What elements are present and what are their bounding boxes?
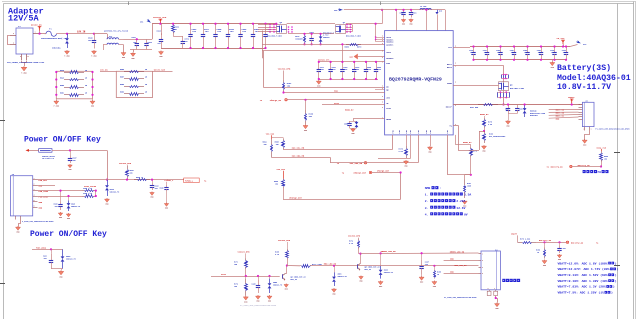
wire C640 to choke FL1 xyxy=(94,34,108,39)
junction ZD49 tap xyxy=(380,252,382,254)
junction C650 bottom xyxy=(252,47,254,49)
junction C416 top mid row xyxy=(341,61,343,63)
svg-text:12.6V: 12.6V xyxy=(456,207,465,210)
frame tick right y=265 xyxy=(614,265,620,267)
net label GND row lower xyxy=(450,271,454,274)
svg-text:R649: R649 xyxy=(60,76,64,79)
net label Battery_AD mid xyxy=(539,239,552,242)
net label VCC3V3_EFB stat pullup xyxy=(238,250,251,253)
resistor R176 9.09 xyxy=(399,146,408,158)
resistor R649 xyxy=(60,76,88,80)
junction C638 top xyxy=(264,23,266,25)
capacitor C353 xyxy=(537,47,544,60)
svg-text:2.: 2. xyxy=(425,200,429,203)
svg-text:9: 9 xyxy=(382,36,383,38)
wire Q6 collector xyxy=(286,266,287,274)
ground below R180 xyxy=(542,260,547,268)
ground below C661 xyxy=(409,19,414,26)
junction C347 top VA_SYS xyxy=(486,45,488,47)
svg-text:~70: ~70 xyxy=(595,170,601,174)
ground below J2 xyxy=(582,139,587,147)
svg-text:10.8V-11.7V: 10.8V-11.7V xyxy=(557,83,611,92)
junction elbow top xyxy=(375,23,377,25)
svg-text:STAT: STAT xyxy=(386,107,392,110)
text SMB line 2 xyxy=(425,199,466,203)
svg-text:1uF: 1uF xyxy=(185,41,188,43)
ground ladder1 left P_GND xyxy=(54,100,60,108)
svg-text::: : xyxy=(439,186,441,190)
capacitor C647 xyxy=(309,31,313,44)
wire REGN_5V feed from pin xyxy=(455,135,471,145)
capacitor C642 104 xyxy=(144,39,152,49)
wire R168 bottom to node xyxy=(287,260,289,266)
junction R648 left xyxy=(55,71,57,73)
junction dots bundle left of Q4 xyxy=(269,24,275,33)
ground below NTC xyxy=(482,145,487,153)
junction R167 top xyxy=(303,33,305,35)
svg-text:2: 2 xyxy=(455,82,456,84)
wire choke out to filter caps xyxy=(124,40,153,52)
wire VA_SYS stub to bus xyxy=(563,44,565,46)
junction R644 on PWR_KEY xyxy=(126,179,128,181)
svg-text:SOD323-76: SOD323-76 xyxy=(338,276,347,278)
junction Q4 source on bus xyxy=(275,23,277,25)
svg-text:104: 104 xyxy=(55,205,58,208)
wire C427 to gnd xyxy=(421,275,423,276)
wire Charge_INT upper xyxy=(372,172,401,174)
net label PWR_LED2 bottom xyxy=(36,246,47,249)
frame tick top x=380 xyxy=(380,2,382,6)
wire bottom pin R176 branch xyxy=(406,135,408,146)
svg-text:C641: C641 xyxy=(132,36,136,39)
junction riser on ACDRV1 xyxy=(341,43,343,45)
capacitor C448 104 xyxy=(252,280,261,293)
wire I2C_SDA_MB short xyxy=(271,157,330,163)
junction C648 top xyxy=(239,23,241,25)
capacitor C429 104 xyxy=(557,246,565,254)
svg-text:VCC3V3_EFB: VCC3V3_EFB xyxy=(238,250,251,253)
svg-text:Battery_AD: Battery_AD xyxy=(571,241,584,244)
svg-text:104: 104 xyxy=(356,68,359,71)
wire SGRN gate to Q8 xyxy=(453,85,498,87)
capacitor C429 stub xyxy=(559,242,561,245)
resistor R657 xyxy=(120,77,148,81)
capacitor C646 xyxy=(226,24,235,48)
zener ZD47 xyxy=(67,201,81,212)
svg-text:C660: C660 xyxy=(400,13,404,15)
wire Charge_INT lower xyxy=(283,199,401,201)
junction C406 bottom mid row xyxy=(365,78,367,80)
junction C346 bottom VA_SYS xyxy=(472,59,474,61)
svg-text:9V: 9V xyxy=(464,213,468,216)
wire VA_SYS gnd stub xyxy=(552,60,554,62)
resistor R163 10K xyxy=(283,80,293,93)
resistor R664 10K xyxy=(263,139,273,157)
port Battery_ID xyxy=(547,165,573,168)
resistor R169 NTC thermistor xyxy=(483,131,506,143)
text battery table line 1 xyxy=(558,261,617,265)
J3 pin stubs xyxy=(479,253,484,275)
svg-text:9: 9 xyxy=(382,85,383,87)
wire ladder2 output xyxy=(153,71,173,73)
zener ESD on REGN xyxy=(355,121,359,128)
junction J3 shield xyxy=(495,297,497,299)
wire R174 bottom xyxy=(359,249,361,254)
wire J3 shield to ground xyxy=(496,296,498,303)
sense jumper row below Q8 xyxy=(498,90,510,99)
bus VA_SYS bottom xyxy=(474,59,567,61)
transistor Q6 NPN xyxy=(283,273,306,281)
resistor R166 10K xyxy=(305,110,314,124)
svg-text:4.: 4. xyxy=(425,213,429,216)
svg-text:SOD923: SOD923 xyxy=(323,37,329,39)
label U1 part BQ20792RQMR-VQFN29 xyxy=(389,76,442,82)
wire WAC arrow to IC xyxy=(358,56,385,58)
junction C647 top xyxy=(311,33,313,35)
junction C352 bottom VA_SYS xyxy=(526,59,528,61)
junction C412 bottom mid row xyxy=(330,78,332,80)
wire Charge_INT riser join xyxy=(400,173,402,200)
svg-text:BQ20792RQMR-VQFN29: BQ20792RQMR-VQFN29 xyxy=(389,76,442,82)
connector J6 power key xyxy=(10,173,32,216)
junction R651 right xyxy=(91,94,93,96)
wire TVS to input cap xyxy=(76,33,94,35)
capacitor C661 xyxy=(409,10,417,18)
ferrite bead FB2 xyxy=(39,149,52,153)
svg-text:SOD323-76: SOD323-76 xyxy=(273,284,282,286)
U1 pin number marks left xyxy=(382,36,383,120)
svg-text:): ) xyxy=(617,267,619,271)
wire spare pin row xyxy=(378,135,411,159)
capacitor bank riser C643 xyxy=(161,24,163,35)
svg-text:Battery_ID: Battery_ID xyxy=(551,166,564,169)
net label VCC3V3_EFB pullup top xyxy=(278,68,291,71)
ground below ZD51 xyxy=(332,288,337,296)
resistor R651 xyxy=(60,93,88,97)
net label Charge_INT right of port xyxy=(377,170,390,173)
svg-text:1: 1 xyxy=(35,32,36,34)
fuse F1 xyxy=(46,28,56,37)
ground below R188 xyxy=(432,281,437,289)
svg-text:VCCA_1V8: VCCA_1V8 xyxy=(596,146,606,149)
junction aux rail riser xyxy=(395,9,397,11)
svg-text:R670: R670 xyxy=(357,47,361,49)
capacitor C643 xyxy=(157,30,164,49)
svg-text:BSN-HDN-T-GE3: BSN-HDN-T-GE3 xyxy=(510,88,524,90)
net label I2C_SCL_MB xyxy=(292,147,305,150)
resistor R162 4R xyxy=(172,24,179,34)
junction ZD51 tap xyxy=(333,265,335,267)
junction power stub on bus xyxy=(159,23,161,25)
transistor Q5 NPN xyxy=(358,263,380,271)
wire J1 shield to ground xyxy=(24,62,26,66)
capacitor C647 key filter xyxy=(70,150,72,155)
svg-text:12V/5A: 12V/5A xyxy=(8,13,40,23)
wire R178 to NTC xyxy=(484,128,486,131)
wire I2C_SCL_MB xyxy=(283,149,393,151)
frame tick right y=152 xyxy=(614,152,620,154)
net label SDA xyxy=(334,90,338,93)
capacitor C648 xyxy=(238,24,247,48)
capacitor C409 xyxy=(374,62,381,79)
title Adapter 12V/5A xyxy=(8,6,44,23)
svg-text:R658: R658 xyxy=(120,84,124,86)
wire R174 stub xyxy=(358,237,360,240)
wire green to C427 tap xyxy=(421,253,423,260)
ground mid cap row xyxy=(316,80,321,88)
J6 pin stubs xyxy=(33,178,38,208)
svg-text:104: 104 xyxy=(332,68,335,71)
svg-text:PIN: PIN xyxy=(406,130,408,133)
junction C419 top mid row xyxy=(353,61,355,63)
junction aux rail riser2 xyxy=(425,9,427,11)
wire J2 shield to ground xyxy=(585,131,590,140)
svg-text:): ) xyxy=(613,285,615,289)
wire bundle into FET cluster xyxy=(258,25,276,32)
wire stubs right of Q7 xyxy=(346,25,353,32)
resistor R658 xyxy=(120,84,148,87)
ground below C641 xyxy=(131,52,136,60)
capacitor C645 xyxy=(213,24,222,48)
svg-text:REGN_5V: REGN_5V xyxy=(345,109,354,112)
svg-text:GREEN_LED_EN: GREEN_LED_EN xyxy=(450,250,465,253)
junction ZD50 STAT xyxy=(268,275,270,277)
resistor R650 xyxy=(60,85,88,89)
J2 bottom pins xyxy=(584,127,592,131)
junction C645 bottom xyxy=(214,47,216,49)
junction dots right of Q7 xyxy=(346,24,351,33)
junction C350 bottom VA_SYS xyxy=(499,59,501,61)
ground below R161 xyxy=(462,200,467,208)
zener ZD48 xyxy=(61,249,76,268)
svg-text:SMBJ15A: SMBJ15A xyxy=(52,47,61,50)
pin 2 of J1 xyxy=(10,33,16,35)
wire R162 to C674 xyxy=(173,34,183,37)
text charge indicator (chinese) xyxy=(502,279,520,282)
wire STAT to IC xyxy=(322,104,385,106)
svg-text:2: 2 xyxy=(482,260,483,262)
power flag VCC19V_SCM xyxy=(153,16,167,23)
junction at TVS xyxy=(66,33,68,35)
resistor R178 2.2K xyxy=(483,118,494,128)
dummy-load resistor box 2 xyxy=(116,71,152,97)
U1 pin number marks right xyxy=(455,46,456,126)
diode D10 aux xyxy=(435,10,442,15)
junction C346 top VA_SYS xyxy=(472,45,474,47)
junction C646 bottom xyxy=(227,47,229,49)
risers from aux rail to IC top pins xyxy=(397,10,446,31)
J2 pin stubs xyxy=(579,105,583,120)
junction C348 bottom VA_SYS xyxy=(553,59,555,61)
text battery table line 2 xyxy=(558,267,619,271)
resistor R172 pulldown stub xyxy=(245,276,247,279)
junction C660 top xyxy=(402,9,404,11)
junction C649 tap xyxy=(59,190,61,192)
junction C416 bottom mid row xyxy=(341,78,343,80)
junction at DC19V_IN stub xyxy=(38,33,40,35)
junction R162 top xyxy=(172,23,174,25)
net label VCC3V3_EFB green pullup xyxy=(348,235,361,238)
net label RED_LED_EN left xyxy=(324,263,337,266)
net label PchON_L with port xyxy=(165,179,174,182)
svg-text:BOT_23: BOT_23 xyxy=(291,279,297,281)
capacitor C649 104 xyxy=(54,202,63,211)
capacitor C416 xyxy=(340,62,347,79)
op-amp U1 charger controller BQ20792RQMR-VQFN29 body xyxy=(385,31,454,135)
wire SDA to IC xyxy=(284,92,385,94)
junction C661 top xyxy=(410,9,412,11)
capacitor C640 xyxy=(88,34,96,49)
wire snubber bottoms xyxy=(51,269,63,271)
wire GREEN_LED_EN xyxy=(361,252,479,255)
junction C644 top xyxy=(189,23,191,25)
junction R649 left xyxy=(55,78,57,80)
stub VCC19V_SCM to bus xyxy=(160,22,162,25)
net labels battery sense xyxy=(556,109,565,121)
junction Q8 on battery rail xyxy=(502,103,504,105)
svg-text:R657: R657 xyxy=(120,77,124,79)
svg-text:9: 9 xyxy=(382,38,383,40)
net label Battery_ID right xyxy=(578,164,591,167)
svg-text:VACT: VACT xyxy=(386,51,392,54)
resistor R347 current sense xyxy=(470,104,498,110)
wire junction down to R161 xyxy=(465,175,471,180)
ground left of choke output xyxy=(121,52,126,60)
svg-text:RED_LED_EN: RED_LED_EN xyxy=(324,263,337,266)
wire PWR_KEY main xyxy=(38,179,184,181)
svg-text:104: 104 xyxy=(378,68,381,71)
riser joining bundle to ACDRV wires xyxy=(262,31,264,59)
junction C645 top xyxy=(214,23,216,25)
junction at C640 xyxy=(93,33,95,35)
text battery table line 3 xyxy=(558,273,617,277)
svg-text:Charge_INT: Charge_INT xyxy=(289,197,302,200)
wire VACT to IC xyxy=(262,50,385,52)
capacitor C421 104uF xyxy=(43,254,53,269)
U1 right pin names xyxy=(446,46,453,127)
label FL1 part xyxy=(104,30,129,33)
junction R648 right xyxy=(91,71,93,73)
svg-text:6: 6 xyxy=(34,205,35,207)
capacitor C643b on PWR_KEY xyxy=(152,180,154,183)
wire fuse to TVS node xyxy=(56,33,76,35)
U1 bottom pin names xyxy=(393,130,450,133)
wire C646 to gnd xyxy=(166,191,168,203)
capacitor C674 1uF xyxy=(181,36,190,48)
ground below R172 xyxy=(243,296,248,304)
resistor R168 4.7K xyxy=(275,249,289,260)
svg-text:VBATT=7.5V: ADC 1.25V (1%: VBATT=7.5V: ADC 1.25V (1% xyxy=(558,291,605,295)
capacitor C641 104 xyxy=(132,36,140,49)
junction VBATT stub xyxy=(571,103,573,105)
common mode choke FL1 bottom winding xyxy=(107,43,119,44)
zener ZD50 stub xyxy=(269,276,271,279)
svg-text:P1_Conn_ATM_C982151619-B0-6TDH: P1_Conn_ATM_C982151619-B0-6TDH xyxy=(444,296,476,299)
bus VCCSUS cap row top into PWB pin xyxy=(319,61,385,63)
wire Q4 drain to Q7 xyxy=(287,23,335,25)
net labels J6 pins xyxy=(39,179,49,209)
resistor R180 1K xyxy=(536,248,546,259)
svg-text:4: 4 xyxy=(482,272,483,275)
net label Charge_INT lower xyxy=(289,197,302,200)
junction C406 top mid row xyxy=(365,61,367,63)
svg-text:ACDRV2: ACDRV2 xyxy=(386,57,394,60)
junction choke-C641 xyxy=(136,38,138,40)
common mode choke FL1 top winding xyxy=(107,35,119,39)
ground below TVS xyxy=(64,50,70,58)
svg-text:ESD9464: ESD9464 xyxy=(530,114,538,117)
resistor R172 10K xyxy=(234,279,248,296)
svg-text:ACDRV1: ACDRV1 xyxy=(386,43,394,46)
junction Battery_ID xyxy=(600,165,602,167)
port I2C_SDA_MB xyxy=(337,162,367,165)
resistor R646 330R xyxy=(82,193,96,197)
zener ZD51 xyxy=(332,272,347,286)
TVS diode SMBJ15A xyxy=(52,34,69,50)
capacitor C411 xyxy=(317,62,324,79)
wire STAT bottom xyxy=(211,276,280,278)
wire REGN cap bottoms xyxy=(350,128,357,130)
svg-text:1: 1 xyxy=(591,129,592,131)
label FB2 part line1 xyxy=(42,155,55,158)
wire C641 C642 bottoms xyxy=(130,49,152,52)
svg-text:330R 1/16: 330R 1/16 xyxy=(83,193,92,195)
wire R166 stub xyxy=(305,100,307,110)
power flag DC19V_IN xyxy=(31,23,42,30)
junction C352 top VA_SYS xyxy=(526,45,528,47)
svg-text:104: 104 xyxy=(344,68,347,71)
svg-text:BSN-HDN-T-GE3: BSN-HDN-T-GE3 xyxy=(267,35,283,38)
text battery table line 4 xyxy=(558,279,617,283)
junction C347 bottom VA_SYS xyxy=(486,59,488,61)
battery positive rail xyxy=(453,104,580,106)
label J2 part number xyxy=(595,127,629,130)
wire GND row lower stub xyxy=(444,273,479,275)
junction C419 bottom mid row xyxy=(353,78,355,80)
connector J2 battery xyxy=(582,100,594,127)
svg-text:104: 104 xyxy=(551,51,554,54)
svg-text:I2C_SCL_MB: I2C_SCL_MB xyxy=(292,147,305,150)
capacitor C638 xyxy=(263,24,272,48)
ground below J6 xyxy=(16,226,21,234)
wire GND pin2 stub xyxy=(38,185,56,187)
J6 bottom pins xyxy=(16,216,21,220)
net label VCC3V3_EFB red pullup xyxy=(278,239,291,242)
capacitor C406 xyxy=(364,62,371,79)
resistor R179 4.02K xyxy=(518,237,537,243)
wire stat pullup stub xyxy=(245,253,247,258)
svg-text:2: 2 xyxy=(584,129,585,131)
ground below Q6 emitter xyxy=(284,284,289,291)
junction C409 bottom mid row xyxy=(375,78,377,80)
ground below Q5 emitter xyxy=(359,276,364,283)
svg-text:9: 9 xyxy=(382,96,383,98)
svg-text:SMB: SMB xyxy=(425,186,431,190)
wire bottom pin gnd branch xyxy=(430,135,432,146)
wire R188 stub xyxy=(434,266,436,270)
capacitor C402 xyxy=(515,105,523,114)
svg-text:GREEN_LED_EN: GREEN_LED_EN xyxy=(381,250,397,253)
net label 19V_IN xyxy=(77,31,86,34)
wire key riser down xyxy=(107,150,109,179)
svg-text:VCC_SUS: VCC_SUS xyxy=(266,132,275,135)
resistor R666b 10K xyxy=(274,179,285,189)
junction R167 bottom xyxy=(303,43,305,45)
svg-text:PIN: PIN xyxy=(418,130,420,133)
wire ZD49 stub xyxy=(380,253,382,266)
svg-text:R650: R650 xyxy=(60,85,64,87)
wire J1 shield pins join xyxy=(22,61,27,63)
